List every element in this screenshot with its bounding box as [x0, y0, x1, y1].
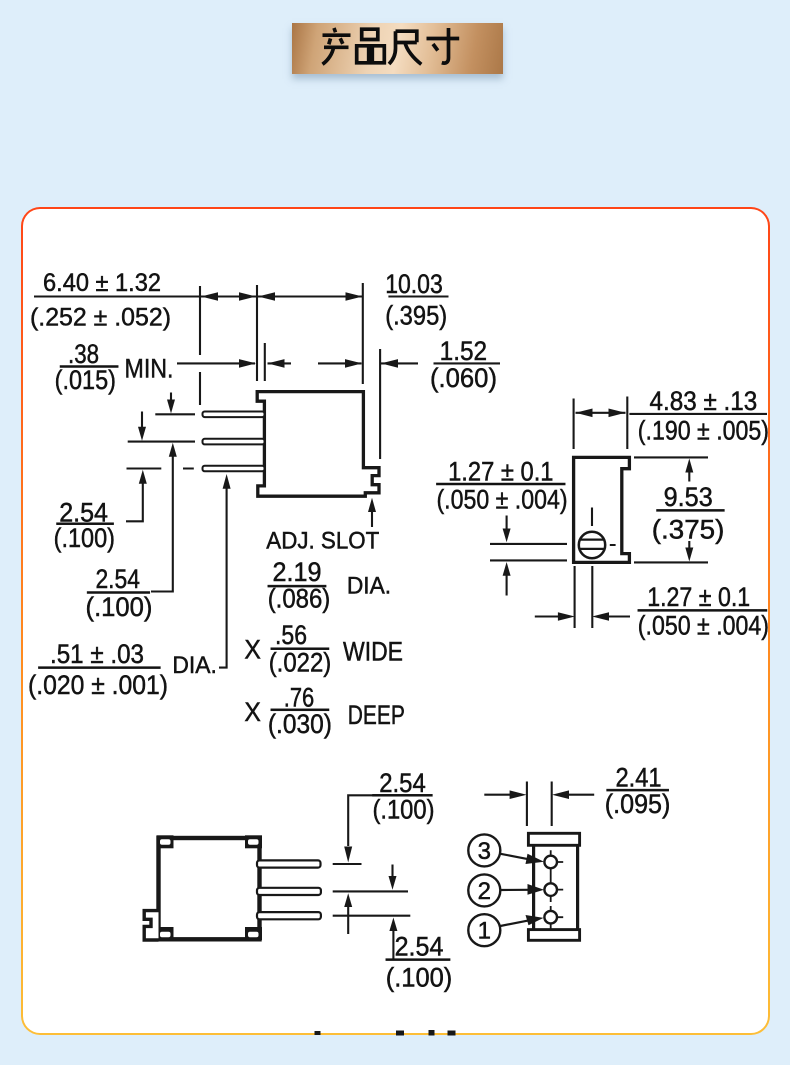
arrow down 1.27 top [506, 516, 508, 530]
char 寸 [427, 28, 460, 63]
ADJ.SLOT pointer arrow [371, 512, 373, 528]
svg-text:(.375): (.375) [652, 515, 725, 545]
svg-text:2.41: 2.41 [615, 762, 661, 792]
fraction bar 2.54 #1 [57, 523, 114, 525]
svg-text:(.015): (.015) [55, 365, 116, 395]
2.41 arrows [484, 794, 594, 796]
svg-text:1.27 ± 0.1: 1.27 ± 0.1 [647, 582, 750, 612]
svg-text:(.060): (.060) [430, 363, 497, 393]
2.54 upper label leader + down arrow [348, 795, 372, 846]
fraction bar .38 [60, 366, 118, 368]
svg-text:(.050 ± .004): (.050 ± .004) [436, 485, 567, 515]
extension line x362.8 (body right) [362, 283, 364, 384]
bottom view body [159, 838, 260, 939]
svg-text:.51 ± .03: .51 ± .03 [50, 639, 144, 669]
end view body (right) [574, 457, 630, 562]
corner pad BL [157, 927, 174, 940]
svg-text:(.095): (.095) [605, 789, 671, 819]
arrow down at lead1 [170, 393, 172, 401]
svg-text:(.100): (.100) [54, 523, 115, 553]
lead3 datum line [127, 467, 194, 469]
svg-text:2.54: 2.54 [95, 564, 140, 594]
down arrow at lead B [391, 865, 393, 877]
extension line x257 [256, 285, 258, 381]
svg-text:(.022): (.022) [269, 648, 332, 678]
fraction bar .51 [38, 667, 160, 669]
arrow 1.52 left [345, 359, 362, 368]
svg-text:1: 1 [478, 918, 491, 945]
svg-text:4.83 ± .13: 4.83 ± .13 [650, 386, 758, 416]
9.53 datum lines [634, 457, 708, 562]
svg-text:9.53: 9.53 [664, 482, 713, 512]
extension line x200 [199, 286, 201, 405]
leader 2 to pin [501, 889, 528, 891]
arrow 6.40 left [201, 292, 218, 301]
pins view side walls [534, 845, 578, 929]
pin cross ticks [558, 862, 564, 917]
svg-text:(.020 ± .001): (.020 ± .001) [28, 670, 168, 700]
extension line x264.8 [264, 343, 266, 381]
1.52 tail and fraction bar [381, 362, 500, 364]
fraction bar .56 [271, 648, 329, 650]
svg-text:2.19: 2.19 [273, 557, 322, 587]
bottom lead 1 [257, 860, 321, 867]
svg-text:X: X [244, 634, 261, 664]
fraction bar 2.54 #2 [87, 592, 150, 594]
fraction bar 1.27 bottom [638, 609, 767, 611]
char 尺 [389, 31, 421, 64]
svg-text:(.100): (.100) [86, 592, 153, 622]
pin hole 1 [544, 856, 557, 869]
pin centerline [550, 850, 552, 929]
char 品 [357, 29, 385, 63]
fraction bar 2.19 [268, 585, 326, 587]
fraction bar 2.41 [607, 789, 669, 791]
corner pad TL [157, 835, 174, 848]
svg-text:X: X [244, 697, 261, 727]
up arrow at lead B from below [347, 907, 349, 935]
lead1 datum line [155, 413, 195, 415]
extension line x380 (boss right) [379, 349, 381, 459]
fraction bar 9.53 [657, 509, 725, 511]
svg-text:10.03: 10.03 [385, 269, 443, 299]
2.54 lower label leader + up arrow [392, 931, 394, 960]
arrow up at lead3 underside + leader to DIA label [219, 489, 227, 668]
lead 2 (middle pin) [203, 439, 265, 445]
svg-text:MIN.: MIN. [125, 354, 174, 384]
pin hole 2 [544, 883, 557, 896]
svg-text:(.050 ± .004): (.050 ± .004) [638, 611, 769, 641]
banner 产品尺寸 [292, 23, 503, 74]
1.52 dim line left part [318, 362, 362, 364]
svg-text:(.086): (.086) [268, 584, 331, 614]
arrow up 1.27 top [506, 576, 508, 596]
MIN. leader line [177, 362, 255, 364]
svg-text:DIA.: DIA. [172, 652, 217, 679]
centerline dashes [592, 508, 616, 546]
1.27 top datum lines [490, 544, 567, 561]
cropped text tops at card bottom [315, 1030, 456, 1036]
lead 1 (top pin) [203, 412, 265, 418]
white card with gradient border [21, 207, 770, 1035]
arrow 10.03 right [346, 292, 363, 301]
char 产 [323, 28, 351, 64]
number circle 2 [468, 874, 500, 906]
svg-text:1.27 ± 0.1: 1.27 ± 0.1 [448, 456, 553, 486]
9.53 dim verticals and arrows [688, 472, 690, 548]
svg-text:(.395): (.395) [385, 301, 447, 331]
svg-text:(.100): (.100) [386, 963, 453, 993]
arrow 6.40 right [239, 292, 256, 301]
1.27 bottom extension lines [575, 566, 593, 628]
slot lines [580, 540, 605, 549]
pins view top cap [528, 833, 579, 845]
arrow up at lead3 + leader to 2.54 label1 [126, 484, 143, 522]
arrow 10.03 left [258, 292, 275, 301]
4.83 extension lines [574, 397, 628, 450]
1.27 bottom arrows [535, 615, 630, 617]
trimmer body side view [257, 392, 379, 497]
svg-text:(.252 ± .052): (.252 ± .052) [30, 304, 171, 332]
svg-text:1.52: 1.52 [440, 336, 488, 366]
slot boss left [144, 911, 158, 940]
svg-text:6.40 ± 1.32: 6.40 ± 1.32 [43, 269, 161, 297]
svg-text:(.190 ± .005): (.190 ± .005) [638, 416, 769, 446]
pin hole 3 [544, 911, 557, 924]
svg-text:2.54: 2.54 [379, 768, 426, 798]
pins view bottom cap [528, 930, 579, 941]
svg-text:3: 3 [478, 838, 491, 865]
svg-text:.56: .56 [275, 620, 307, 650]
fraction bar 1.27 top [436, 483, 565, 485]
bottom datum lines [333, 864, 411, 916]
svg-text:DIA.: DIA. [347, 573, 391, 600]
number circle 3 [468, 834, 500, 866]
leader 1 to pin [500, 921, 528, 926]
svg-text:.76: .76 [284, 682, 315, 712]
number circle 1 [468, 914, 500, 946]
lead 3 (bottom pin) [203, 466, 265, 472]
lead2 datum line [128, 441, 195, 443]
arrow .38 left-facing [268, 359, 285, 368]
2.41 extension lines [527, 782, 552, 827]
arrow down at lead2 (pair for 2.54 label1) [141, 412, 143, 428]
bottom lead 3 [257, 912, 321, 919]
side view: dimension line 6.40/10.03 [34, 295, 449, 297]
4.83 dim line + arrows [576, 413, 768, 414]
arrow up at lead2 + leader to 2.54 label2 [151, 457, 173, 592]
arrow MIN right [239, 359, 256, 368]
corner pad TR [245, 835, 262, 848]
screw slot circle [579, 532, 605, 558]
arrow 1.52 right [381, 359, 398, 368]
svg-text:2: 2 [478, 878, 491, 905]
svg-text:WIDE: WIDE [343, 637, 403, 667]
svg-text:(.030): (.030) [268, 709, 332, 739]
svg-text:ADJ. SLOT: ADJ. SLOT [266, 527, 379, 554]
corner pad BR [245, 927, 262, 940]
svg-text:2.54: 2.54 [395, 932, 444, 962]
leader 3 to pin [501, 854, 530, 860]
fraction bar 2.54 bottom lower [386, 959, 450, 961]
fraction bar .76 [271, 709, 329, 711]
tail line of .38 arrow [268, 362, 292, 364]
fraction bar 2.54 bottom upper [373, 794, 433, 796]
bottom lead 2 [257, 888, 321, 895]
svg-text:(.100): (.100) [372, 794, 434, 824]
svg-text:DEEP: DEEP [348, 700, 405, 730]
